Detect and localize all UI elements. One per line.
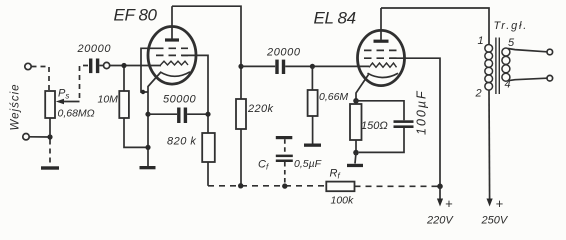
wire cathode EL84 down [356,75,369,101]
wire wiper arrow [62,101,80,103]
wire Cf top dashed [284,139,286,154]
wire pot bottom [49,118,51,137]
cathode EL84 [368,73,399,77]
capacitor 20000 input [89,59,92,74]
grid g2 EF80 dashed [156,54,188,56]
node cathode bottom junction [353,150,359,156]
node speaker terminal top [547,49,553,55]
svg-text:Wejście: Wejście [10,83,22,130]
node terminal after cap [104,62,110,68]
wire g2 EL84 [390,58,440,186]
capacitor 20000 coupling [241,65,312,67]
wire grid EL84 [312,65,369,67]
wire 10M bottom [124,118,148,147]
wire g2 EF80 [182,55,208,133]
wire input bottom [29,136,50,138]
wire secondary bottom [508,78,547,81]
capacitor Cf 0,5uF [276,155,293,158]
resistor 0,66M [311,66,313,90]
svg-text:820 k: 820 k [167,136,196,148]
svg-text:150Ω: 150Ω [361,120,388,132]
node g2 junction [205,112,210,117]
node junction grid 10M [121,63,126,68]
svg-text:20000: 20000 [77,43,112,55]
cathode EF80 [160,72,190,77]
svg-text:220V: 220V [426,215,454,227]
ground input [41,166,59,169]
tube EL84 envelope [358,30,405,85]
wire 820k bottom [207,162,209,186]
wire 0,66M bottom [312,116,314,144]
wire 220k bottom [240,129,242,186]
node grid junction EL84 [310,64,315,69]
grid g3 EL84 dashed [364,49,398,51]
svg-text:50000: 50000 [163,94,196,106]
anode EL84 [374,40,389,43]
ground EL84 cathode [355,153,356,164]
wire supply bus dashed left [208,185,326,187]
wire primary bottom to 250V [488,90,491,199]
resistor 220k [236,99,246,129]
grid g2 EL84 dashed [364,57,398,59]
wire dashed input top [32,67,50,92]
wire wiper dashed [80,66,89,102]
wire Cf bottom dashed [284,162,286,186]
svg-text:0,68MΩ: 0,68MΩ [58,108,95,120]
terminal 250V arrow [487,199,493,207]
node bus 220k [238,183,243,188]
terminal 220V arrow [439,186,441,199]
svg-text:220k: 220k [247,103,274,115]
grid g1 zigzag EF80 [161,61,189,65]
node cathode/10M [145,145,150,150]
ground EF80 cathode [140,166,156,169]
resistor 820k [202,133,215,162]
wire dashed to ground [49,140,51,165]
svg-text:+: + [496,196,504,211]
svg-text:2: 2 [475,88,482,100]
wire EL84 anode top [381,8,489,45]
potentiometer P [45,91,55,118]
svg-text:1: 1 [478,35,484,47]
ground 0,66M [304,144,321,147]
svg-text:250V: 250V [481,215,509,227]
wire secondary top [508,49,547,52]
node input bottom terminal [23,134,29,140]
svg-text:EL 84: EL 84 [314,9,356,28]
wire 150ohm bottom [355,140,357,153]
ground Cf [276,136,293,139]
transformer core [496,38,499,95]
node speaker terminal bottom [547,75,553,81]
svg-text:20000: 20000 [266,47,301,59]
capacitor 50000 [148,113,208,115]
capacitor 100uF [356,101,404,121]
svg-text:100k: 100k [331,195,355,207]
grid g3 EF80 dashed [156,47,188,49]
transformer Tr primary [485,44,493,52]
wire EF80 anode top [172,6,241,99]
resistor 10M [119,91,129,118]
svg-text:100µF: 100µF [415,89,429,135]
wire cathode EF80 down [148,73,161,167]
node junction pot bottom [47,134,52,139]
svg-text:5: 5 [508,37,515,49]
node bus Cf [282,183,287,188]
grid g1 zigzag EL84 [369,63,397,67]
transformer Tr secondary [502,48,510,56]
svg-text:10M: 10M [98,94,119,106]
resistor Rf 100k [326,182,354,192]
svg-text:0,5µF: 0,5µF [294,158,322,170]
svg-text:Cf: Cf [258,159,269,172]
svg-text:Ps: Ps [58,88,69,101]
anode EF80 [165,38,179,41]
node anode junction [238,64,243,69]
node cathode junction EL84 [353,98,359,104]
svg-text:+: + [445,196,453,211]
node bus 220V [437,184,443,190]
svg-text:Rf: Rf [330,168,341,181]
svg-text:Tr.gł.: Tr.gł. [494,20,529,32]
node input top terminal [25,63,31,69]
wire supply bus dashed right [355,185,441,187]
wire g3 tie [141,48,156,92]
svg-text:0,66M: 0,66M [319,91,348,103]
tube EF80 envelope [148,27,196,85]
wire grid EF80 [110,65,161,67]
node cathode/50000 [145,112,150,117]
resistor 150ohm [350,104,362,140]
svg-text:EF 80: EF 80 [114,6,158,25]
